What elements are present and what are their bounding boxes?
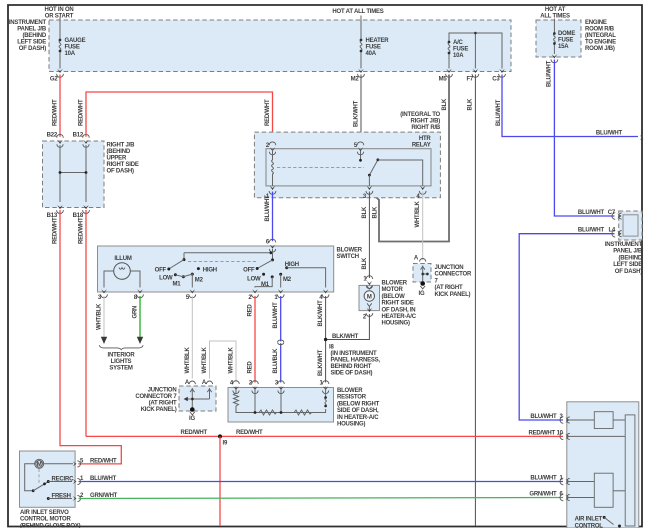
wire BLK M5 down-left-up to relay pin 3 (thick) (369, 75, 449, 242)
svg-text:BLK/WHT: BLK/WHT (332, 334, 359, 340)
pin A of junction connector 7 (second) (202, 380, 213, 392)
svg-text:(AT RIGHT: (AT RIGHT (435, 285, 463, 291)
svg-text:WHT/BLK: WHT/BLK (97, 303, 103, 330)
pin L4 (entry) (578, 228, 622, 237)
svg-text:HIGH: HIGH (285, 262, 299, 268)
left switch bank of blower switch (155, 251, 273, 287)
svg-text:OFF: OFF (155, 268, 167, 274)
pin 3 of relay (exit) (363, 186, 373, 200)
pin 1 of relay (exit) (266, 186, 276, 200)
pin B13 (exit) (47, 205, 64, 219)
svg-text:OF DASH, IN: OF DASH, IN (382, 307, 416, 313)
svg-text:BLOWER: BLOWER (337, 388, 363, 394)
svg-text:RECIRC: RECIRC (52, 476, 75, 482)
svg-text:OR START: OR START (45, 14, 74, 20)
relay switch (359, 151, 423, 186)
wire RED/WHT B18 down to main horizontal (79, 210, 87, 436)
interior lights system brace and label (99, 345, 143, 371)
label AIR INLET CONTROL (575, 517, 604, 528)
servo motor M symbol (35, 459, 44, 468)
svg-text:WHT/BLK: WHT/BLK (202, 346, 208, 373)
svg-text:JUNCTION: JUNCTION (435, 265, 464, 271)
svg-text:RELAY: RELAY (412, 143, 431, 149)
wire BLK F7 down to page bottom (468, 75, 476, 527)
pin M5 (exit of bus box) (439, 69, 453, 83)
svg-text:BLU/WHT: BLU/WHT (273, 302, 279, 329)
label BLOWER SWITCH (337, 248, 363, 261)
pin 6 of blower switch (entry) (266, 239, 276, 252)
svg-text:RIGHT J/B: RIGHT J/B (107, 143, 136, 149)
svg-text:M: M (37, 462, 42, 468)
servo internal wiring and switch (25, 464, 74, 500)
pin 6 of air inlet control (entry) (529, 491, 569, 501)
label ENGINE ROOM R/B (INTEGRAL TO ENGINE ROOM J/B) (585, 20, 616, 52)
svg-text:BLU/WHT: BLU/WHT (496, 99, 502, 126)
svg-text:A/C: A/C (453, 40, 464, 46)
svg-text:M5: M5 (439, 77, 448, 83)
pin 3 of air inlet control (entry) (560, 417, 570, 424)
fuse DOME FUSE 15A (553, 19, 575, 55)
svg-text:BLU/BLK: BLU/BLK (273, 348, 279, 374)
pin 2 of relay (entry) (266, 142, 276, 155)
pin 3 of blower resistor (entry) (275, 381, 284, 394)
svg-text:RIGHT SIDE: RIGHT SIDE (107, 162, 139, 168)
svg-text:M2: M2 (195, 278, 204, 284)
label JUNCTION CONNECTOR 7 (AT RIGHT KICK PANEL) (435, 265, 472, 298)
pin M2 (exit of bus box) (351, 69, 365, 83)
svg-text:PANEL J/B: PANEL J/B (613, 249, 643, 255)
pin 2 of blower motor (exit) (363, 308, 373, 321)
svg-text:TO ENGINE: TO ENGINE (585, 40, 616, 46)
air inlet control internals (567, 412, 635, 528)
pin A of junction connector 7 (first) (185, 380, 196, 392)
pin 1 of blower switch (exit) (274, 289, 284, 301)
pin 1 of servo motor (exit) (73, 476, 117, 485)
svg-text:HOT AT: HOT AT (545, 7, 566, 13)
svg-text:15A: 15A (558, 44, 569, 50)
pin 4 of relay (exit) (416, 186, 426, 200)
right switch bank of blower switch (243, 249, 325, 288)
wire BLU/WHT dome fuse down to C7 (547, 60, 615, 217)
svg-text:AIR INLET: AIR INLET (575, 517, 603, 523)
svg-text:BEHIND RIGHT: BEHIND RIGHT (331, 364, 372, 370)
svg-text:ALL TIMES: ALL TIMES (540, 14, 570, 20)
svg-text:40A: 40A (366, 51, 377, 57)
HTR relay outer dashed box (254, 132, 440, 198)
svg-text:(INTEGRAL TO: (INTEGRAL TO (400, 112, 440, 118)
svg-text:M1: M1 (173, 282, 182, 288)
svg-text:HOUSING): HOUSING) (382, 321, 410, 327)
svg-text:INTERIOR: INTERIOR (108, 352, 136, 358)
wire BLK/WHT M2 to relay pin 5 (354, 75, 362, 145)
svg-text:BLK: BLK (468, 98, 474, 111)
svg-text:CONNECTOR: CONNECTOR (435, 272, 472, 278)
svg-text:OF DASH): OF DASH) (107, 169, 134, 175)
svg-text:HOT IN ON: HOT IN ON (44, 7, 73, 13)
svg-text:B12: B12 (73, 133, 84, 139)
svg-text:OF DASH): OF DASH) (615, 269, 642, 275)
svg-text:HIGH: HIGH (203, 268, 217, 274)
wire WHT/BLK pin 5 to junction connector 7 pin A (185, 296, 193, 379)
svg-text:RED/WHT: RED/WHT (79, 217, 85, 244)
svg-text:OFF: OFF (243, 268, 255, 274)
svg-text:GAUGE: GAUGE (65, 38, 86, 44)
instrument panel J/B bus box (HOT bus) (49, 20, 511, 72)
label RIGHT J/B (BEHIND UPPER RIGHT SIDE OF DASH) (107, 143, 139, 175)
svg-text:BLK/WHT: BLK/WHT (354, 100, 360, 127)
wire BLU/WHT pin 1 with inline connector then BLU/BLK to resistor pin 3 (273, 296, 284, 383)
svg-text:RED/WHT: RED/WHT (90, 459, 117, 465)
svg-text:SWITCH: SWITCH (337, 254, 359, 260)
mechanical dashed link between switch banks (188, 261, 256, 263)
svg-text:BLK: BLK (373, 206, 379, 219)
label INSTRUMENT PANEL J/B (BEHIND LEFT SIDE OF DASH) (9, 20, 47, 52)
wire RED pin 2 to blower resistor pin 2 (248, 296, 256, 383)
svg-text:FUSE: FUSE (453, 47, 468, 53)
svg-text:CONNECTOR 7: CONNECTOR 7 (135, 394, 177, 400)
right J/B internal wires (59, 145, 88, 202)
engine room R/B box (536, 20, 581, 57)
wire WHT/BLK relay pin 4 to junction connector 7 (415, 192, 423, 261)
pin 5 of relay (entry) (354, 142, 364, 155)
svg-text:LIGHTS: LIGHTS (111, 359, 132, 365)
svg-text:(BEHIND GLOVE BOX): (BEHIND GLOVE BOX) (20, 523, 81, 528)
svg-text:LEFT SIDE: LEFT SIDE (613, 262, 642, 268)
svg-text:M1: M1 (261, 282, 270, 288)
air inlet control box (567, 402, 639, 528)
svg-text:(IN INSTRUMENT: (IN INSTRUMENT (331, 351, 377, 357)
instrument panel J/B box (right, C7/L4) (619, 211, 642, 240)
wire BLU/WHT C3 to right edge connector 1 (496, 75, 644, 142)
svg-text:HOUSING): HOUSING) (337, 422, 365, 428)
pin 2 of servo motor (exit) (73, 493, 118, 502)
svg-text:BLU/WHT: BLU/WHT (530, 475, 557, 481)
fuse GAUGE FUSE 10A (59, 17, 86, 69)
wire BLU/WHT L4 to air inlet control pin 3 (519, 234, 614, 420)
svg-text:RED: RED (248, 304, 254, 317)
pin 3 of blower switch (exit) (98, 289, 108, 301)
pin 10 of air inlet control (entry) (560, 433, 570, 440)
svg-text:KICK PANEL): KICK PANEL) (435, 292, 471, 298)
pin F7 (exit of bus box) (466, 69, 478, 83)
junction connector 7 box (bottom left) (179, 386, 216, 411)
svg-text:RED/WHT: RED/WHT (181, 430, 208, 436)
pin 2 of blower switch (exit) (248, 289, 258, 301)
svg-text:(BELOW: (BELOW (382, 294, 406, 300)
wire GRN pin 8 to interior lights system (133, 296, 144, 344)
svg-text:(BEHIND: (BEHIND (619, 255, 643, 261)
svg-text:PANEL HARNESS,: PANEL HARNESS, (331, 358, 381, 364)
svg-text:PANEL J/B: PANEL J/B (17, 27, 47, 33)
pin 8 of blower switch (exit) (134, 289, 144, 301)
junction connector 7 internals (near motor) (419, 266, 429, 297)
svg-text:HEATER-A/C: HEATER-A/C (382, 314, 417, 320)
pin 1 of blower motor (entry) (363, 276, 372, 289)
relay mechanical dashed link (277, 167, 364, 169)
label AIR INLET SERVO CONTROL MOTOR (BEHIND GLOVE BOX) (20, 510, 81, 528)
svg-text:DOME: DOME (558, 31, 575, 37)
svg-text:LEFT SIDE: LEFT SIDE (17, 40, 46, 46)
svg-text:ROOM R/B: ROOM R/B (585, 27, 615, 33)
svg-text:IG: IG (189, 416, 195, 422)
svg-text:C7: C7 (608, 210, 616, 216)
blower resistor box (228, 388, 334, 423)
svg-text:MOTOR: MOTOR (382, 287, 404, 293)
label BLOWER RESISTOR (BELOW RIGHT SIDE OF DASH IN HEATER-A/C HOUSING) (337, 388, 380, 428)
svg-text:C3: C3 (492, 77, 500, 83)
pin A of junction connector (near motor) (414, 256, 426, 270)
svg-text:ROOM J/B): ROOM J/B) (585, 46, 615, 52)
wire RED/WHT G2 to B22 (53, 75, 61, 137)
svg-text:INSTRUMENT: INSTRUMENT (9, 20, 47, 26)
splice I8 (324, 338, 335, 351)
svg-text:AIR INLET SERVO: AIR INLET SERVO (20, 510, 69, 516)
svg-text:ENGINE: ENGINE (585, 20, 607, 26)
lamp ILLUM (104, 256, 140, 288)
svg-text:M2: M2 (351, 77, 360, 83)
svg-text:JUNCTION: JUNCTION (148, 388, 177, 394)
svg-text:BLK: BLK (442, 98, 448, 111)
pin B12 (entry) (73, 133, 90, 148)
svg-text:SYSTEM: SYSTEM (109, 365, 133, 371)
svg-text:LOW: LOW (159, 276, 173, 282)
label BLOWER MOTOR (BELOW RIGHT SIDE OF DASH IN HEATER-A/C HOUSING) (382, 281, 417, 327)
svg-text:HEATER: HEATER (366, 38, 390, 44)
wire RED/WHT splice I9 down to page bottom (219, 436, 221, 526)
blower switch box (98, 246, 334, 292)
svg-text:BLU/WHT: BLU/WHT (530, 414, 557, 420)
right J/B box (43, 141, 105, 208)
svg-text:GRN/WHT: GRN/WHT (529, 491, 557, 497)
svg-text:(AT RIGHT: (AT RIGHT (149, 401, 177, 407)
svg-text:INSTRUMENT: INSTRUMENT (605, 242, 643, 248)
svg-text:(BEHIND: (BEHIND (23, 33, 47, 39)
svg-text:FRESH: FRESH (52, 493, 71, 499)
svg-text:RED/WHT: RED/WHT (265, 99, 271, 126)
pin G2 (exit of bus box) (50, 69, 63, 83)
fuse A/C FUSE 10A with internal rail (448, 32, 502, 69)
svg-text:GRN: GRN (133, 306, 139, 319)
svg-text:ILLUM: ILLUM (114, 256, 131, 262)
svg-text:HOT AT ALL TIMES: HOT AT ALL TIMES (332, 9, 383, 15)
svg-text:LOW: LOW (247, 277, 261, 283)
pin dome fuse exit (551, 54, 558, 62)
pin 1 of air inlet control (entry) (530, 475, 569, 485)
svg-text:BLU/WHT: BLU/WHT (265, 195, 271, 222)
pin 5 of blower switch (exit) (186, 289, 196, 301)
svg-text:SIDE OF DASH,: SIDE OF DASH, (337, 408, 379, 414)
svg-text:CONTROL MOTOR: CONTROL MOTOR (20, 517, 71, 523)
label HTR RELAY (412, 136, 432, 149)
svg-text:WHT/BLK: WHT/BLK (229, 346, 235, 373)
svg-text:M: M (367, 294, 372, 300)
svg-text:RIGHT J/B): RIGHT J/B) (411, 119, 441, 125)
svg-text:RED/WHT: RED/WHT (79, 99, 85, 126)
svg-text:RED/WHT: RED/WHT (529, 430, 556, 436)
svg-text:M2: M2 (283, 277, 292, 283)
label (INTEGRAL TO RIGHT J/B) RIGHT R/B (400, 112, 441, 131)
svg-text:IG: IG (419, 291, 425, 297)
svg-text:BLU/WHT: BLU/WHT (578, 228, 605, 234)
junction connector 7 box (at blower motor) (413, 264, 431, 283)
pin 4 of blower switch (exit) (319, 289, 329, 301)
svg-text:RIGHT R/B: RIGHT R/B (411, 125, 441, 131)
svg-text:BLK: BLK (362, 257, 368, 270)
label HOT AT ALL TIMES (engine room) (540, 7, 570, 20)
pin 5 of servo motor (exit) (44, 459, 117, 468)
svg-text:BLOWER: BLOWER (337, 248, 363, 254)
air inlet servo control motor box (20, 451, 76, 507)
pin 1 of blower resistor (entry) (319, 381, 328, 394)
svg-text:10A: 10A (453, 53, 464, 59)
pin B18 (exit) (73, 205, 90, 219)
svg-text:WHT/BLK: WHT/BLK (185, 346, 191, 373)
pin B22 (entry) (47, 133, 64, 148)
wire GRN/WHT servo pin 2 to air inlet control pin 6 (79, 498, 564, 499)
splice I9 (218, 434, 228, 446)
svg-text:F7: F7 (466, 77, 473, 83)
svg-text:FUSE: FUSE (65, 45, 80, 51)
svg-text:OF DASH): OF DASH) (19, 46, 46, 52)
label I8 (IN INSTRUMENT PANEL HARNESS BEHIND RIGHT SIDE OF DASH) (331, 351, 381, 377)
wire WHT/BLK pin 3 to interior lights system (97, 296, 108, 344)
wire BLK/WHT blower motor pin 2 to splice I8 (326, 314, 370, 340)
pin 2 of blower resistor (entry) (249, 381, 258, 394)
svg-text:(INTEGRAL: (INTEGRAL (585, 33, 616, 39)
svg-text:B22: B22 (47, 133, 58, 139)
svg-text:WHT/BLK: WHT/BLK (415, 200, 421, 227)
svg-text:UPPER: UPPER (107, 156, 127, 162)
wire BLK relay pin 3 to blower motor pin 1 (362, 192, 369, 279)
pin C3 (exit of bus box) (492, 69, 505, 83)
svg-text:CONTROL: CONTROL (575, 523, 604, 528)
junction connector 7 internals (bottom left) (184, 388, 210, 422)
pin C7 (entry) (578, 210, 622, 219)
svg-text:(BELOW RIGHT: (BELOW RIGHT (337, 401, 380, 407)
svg-text:RED/WHT: RED/WHT (53, 217, 59, 244)
svg-text:RED/WHT: RED/WHT (236, 430, 263, 436)
svg-text:BLU/WHT: BLU/WHT (596, 131, 623, 137)
svg-text:(BEHIND: (BEHIND (107, 149, 131, 155)
svg-text:KICK PANEL): KICK PANEL) (141, 407, 177, 413)
svg-text:IN HEATER-A/C: IN HEATER-A/C (337, 415, 379, 421)
wire BLK/WHT pin 4 to splice I8 and resistor pin 1 (318, 296, 326, 383)
wire BLU/WHT relay pin 1 to blower switch pin 6 (265, 192, 273, 242)
svg-text:RIGHT SIDE: RIGHT SIDE (382, 301, 414, 307)
svg-text:HTR: HTR (419, 136, 432, 142)
blower motor symbol M (364, 286, 374, 310)
svg-text:G2: G2 (50, 77, 58, 83)
svg-text:BLK/WHT: BLK/WHT (318, 349, 324, 376)
pin 4 of blower resistor (entry) (230, 381, 239, 394)
HTR relay inner box (266, 149, 431, 186)
label INSTRUMENT PANEL J/B (BEHIND LEFT SIDE OF DASH) right (605, 242, 643, 275)
relay coil (272, 149, 274, 186)
wire RED/WHT corner to relay pin 2 (79, 92, 273, 144)
svg-text:BLK: BLK (362, 206, 368, 219)
wire WHT/BLK jog junction connector A to resistor pin 4 (202, 341, 236, 383)
wire RED/WHT B13 down to servo pin 5 (53, 210, 122, 464)
wire RED/WHT main horizontal to air inlet control pin 10 (86, 430, 564, 436)
svg-text:SIDE OF DASH): SIDE OF DASH) (331, 371, 373, 377)
svg-text:10A: 10A (65, 51, 76, 57)
svg-text:FUSE: FUSE (558, 38, 573, 44)
svg-text:BLU/WHT: BLU/WHT (578, 210, 605, 216)
blower resistor internals (234, 387, 327, 416)
svg-text:BLK/WHT: BLK/WHT (318, 300, 324, 327)
wire BLU/WHT servo pin 1 to air inlet control pin 1 (79, 481, 564, 483)
svg-text:RED/WHT: RED/WHT (53, 99, 59, 126)
fuse HEATER FUSE 40A (360, 16, 390, 69)
svg-text:RESISTOR: RESISTOR (337, 395, 367, 401)
svg-text:L4: L4 (608, 228, 615, 234)
label HOT IN ON OR START (44, 7, 73, 20)
label JUNCTION CONNECTOR 7 (AT RIGHT KICK PANEL) bottom left (135, 388, 177, 414)
svg-text:FUSE: FUSE (366, 45, 381, 51)
svg-text:RED: RED (248, 361, 254, 374)
svg-text:BLOWER: BLOWER (382, 281, 408, 287)
blower motor box (359, 285, 380, 310)
svg-text:BLU/WHT: BLU/WHT (547, 60, 553, 87)
